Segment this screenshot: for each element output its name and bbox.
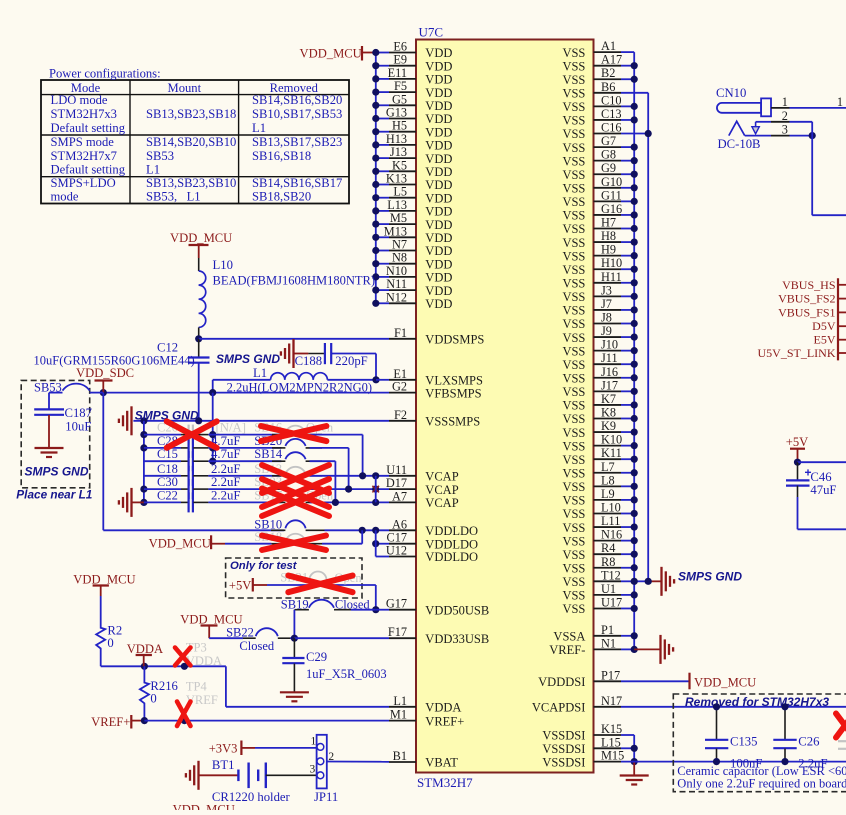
ground (C29) <box>280 692 309 701</box>
pin D17 VCAP <box>386 476 459 497</box>
svg-text:VSS: VSS <box>562 195 585 209</box>
svg-text:2: 2 <box>782 109 788 123</box>
pin J17 VSS <box>562 378 621 399</box>
power port VDD_MCU (SB22 row) <box>180 613 242 639</box>
svg-text:R8: R8 <box>601 555 615 569</box>
svg-text:1uF_X5R_0603: 1uF_X5R_0603 <box>306 667 387 681</box>
pin E9 VDD <box>389 53 452 74</box>
svg-text:N16: N16 <box>601 528 622 542</box>
svg-text:VSS: VSS <box>562 412 585 426</box>
svg-text:BEAD(FBMJ1608HM180NTR): BEAD(FBMJ1608HM180NTR) <box>213 274 376 288</box>
svg-text:VSS: VSS <box>562 453 585 467</box>
svg-text:VSS: VSS <box>562 87 585 101</box>
svg-text:VDD: VDD <box>425 125 452 139</box>
svg-text:J9: J9 <box>601 324 612 338</box>
svg-text:L7: L7 <box>601 460 615 474</box>
power port +3V3 <box>209 741 255 756</box>
pin F2 VSSSMPS <box>389 408 480 429</box>
svg-text:VSS: VSS <box>562 249 585 263</box>
svg-text:L10: L10 <box>213 258 233 272</box>
svg-text:L5: L5 <box>393 185 407 199</box>
svg-text:C46: C46 <box>810 470 831 484</box>
svg-text:VSSDSI: VSSDSI <box>542 742 585 756</box>
note Place near L1 <box>16 488 92 502</box>
svg-text:N17: N17 <box>601 694 622 708</box>
svg-text:VDD: VDD <box>425 59 452 73</box>
svg-text:H5: H5 <box>392 119 407 133</box>
capacitor C30 2.2uF <box>144 475 282 499</box>
net label VDD_MCU (bottom, cut) <box>173 803 235 815</box>
svg-text:U11: U11 <box>386 463 407 477</box>
svg-text:L1: L1 <box>253 366 267 380</box>
svg-text:SMPS+LDO: SMPS+LDO <box>51 176 116 190</box>
svg-text:P17: P17 <box>601 668 620 682</box>
svg-text:VDD: VDD <box>425 231 452 245</box>
pin U1 VSS <box>562 582 621 603</box>
power port VDDA <box>127 642 163 666</box>
svg-text:VSS: VSS <box>562 521 585 535</box>
svg-text:VCAP: VCAP <box>425 470 458 484</box>
svg-text:VSS: VSS <box>562 114 585 128</box>
pin J8 VSS <box>562 311 621 332</box>
red X over SB21 <box>288 576 352 593</box>
note Only for test <box>230 560 298 572</box>
pin U17 VSS <box>562 595 622 616</box>
svg-text:D5V: D5V <box>812 319 836 333</box>
svg-text:VDD: VDD <box>425 205 452 219</box>
svg-text:N8: N8 <box>392 251 407 265</box>
svg-text:C12: C12 <box>157 341 178 355</box>
svg-text:220pF: 220pF <box>335 354 367 368</box>
svg-text:1: 1 <box>782 95 788 109</box>
table row SMPS+LDO mode <box>51 176 343 204</box>
capacitor C15 4.7uF <box>144 447 282 471</box>
svg-text:H11: H11 <box>601 270 622 284</box>
svg-text:L1: L1 <box>393 694 407 708</box>
pin K10 VSS <box>562 433 622 454</box>
pin G16 VSS <box>562 202 622 223</box>
svg-text:VSS: VSS <box>562 534 585 548</box>
wire VREF+ to M1 <box>141 717 389 724</box>
ground SMPS GND (cap bank bottom) <box>119 488 144 517</box>
svg-text:SB18,SB20: SB18,SB20 <box>252 190 311 204</box>
svg-text:CN10: CN10 <box>716 86 746 100</box>
label L10 <box>213 258 376 288</box>
svg-text:U7C: U7C <box>419 25 444 40</box>
svg-text:K5: K5 <box>392 158 407 172</box>
solder bridge SB13 <box>254 462 322 476</box>
svg-text:SMPS GND: SMPS GND <box>25 465 89 479</box>
svg-text:VDD: VDD <box>425 46 452 60</box>
svg-text:VREF+: VREF+ <box>91 715 130 729</box>
pin M13 VDD <box>384 224 453 245</box>
ground SMPS GND symbol (C188) <box>281 339 325 368</box>
svg-text:VSS: VSS <box>562 168 585 182</box>
table header row <box>71 81 319 95</box>
power port +5V (C46) <box>786 435 809 462</box>
svg-text:J10: J10 <box>601 338 618 352</box>
power port VDD_MCU (R2) <box>73 573 135 597</box>
capacitor C29 1uF <box>282 638 386 692</box>
label SMPS GND (T12) <box>678 570 742 584</box>
svg-text:VDD: VDD <box>425 244 452 258</box>
svg-text:JP11: JP11 <box>314 790 338 804</box>
svg-text:SB14,SB16,SB20: SB14,SB16,SB20 <box>252 93 342 107</box>
pin C17 VDDLDO <box>387 531 479 552</box>
ground (BT1) <box>186 761 199 790</box>
svg-text:Power configurations:: Power configurations: <box>49 67 161 81</box>
pin M5 VDD <box>389 211 452 232</box>
svg-text:VSS: VSS <box>562 59 585 73</box>
svg-text:T12: T12 <box>601 568 621 582</box>
solder bridge SB20 <box>254 434 322 448</box>
table title <box>49 67 161 81</box>
svg-text:VDD_MCU: VDD_MCU <box>300 47 362 61</box>
wire VDDA node <box>101 663 389 707</box>
svg-text:G10: G10 <box>601 175 622 189</box>
svg-text:VSS: VSS <box>562 358 585 372</box>
wire E1 VLXSMPS row <box>372 376 389 383</box>
svg-text:SB13,SB23,SB18: SB13,SB23,SB18 <box>146 107 236 121</box>
svg-text:E11: E11 <box>388 66 407 80</box>
svg-text:J16: J16 <box>601 365 618 379</box>
pin E6 VDD <box>389 40 452 61</box>
svg-text:STM32H7x7: STM32H7x7 <box>51 149 117 163</box>
svg-text:VSS: VSS <box>562 100 585 114</box>
pin T12 VSS <box>562 568 621 589</box>
svg-text:C29: C29 <box>306 650 327 664</box>
svg-text:STM32H7x3: STM32H7x3 <box>51 107 117 121</box>
svg-text:VSS: VSS <box>562 548 585 562</box>
svg-text:N7: N7 <box>392 238 407 252</box>
capacitor C26 2.2uF <box>773 703 827 770</box>
svg-text:VSS: VSS <box>562 182 585 196</box>
junction dots VDD bus <box>372 49 379 307</box>
svg-text:VSS: VSS <box>562 439 585 453</box>
dashed box Removed for STM32H7x3 <box>673 694 846 792</box>
svg-text:1: 1 <box>837 95 843 109</box>
svg-text:SB14,SB20,SB10: SB14,SB20,SB10 <box>146 135 236 149</box>
pin K8 VSS <box>562 405 621 426</box>
svg-text:G9: G9 <box>601 161 616 175</box>
svg-text:F5: F5 <box>394 79 407 93</box>
wire VSS bus 1 <box>621 52 648 649</box>
svg-text:VSS: VSS <box>562 236 585 250</box>
connector CN10 DC-10B <box>716 86 771 151</box>
svg-text:VBUS_FS1: VBUS_FS1 <box>778 305 835 319</box>
power port VDD_MCU (top, to VDD pins) <box>300 46 376 61</box>
svg-text:SB10,SB17,SB53: SB10,SB17,SB53 <box>252 107 342 121</box>
wire cap bank left bus <box>140 421 147 506</box>
svg-text:Only one 2.2uF required on boa: Only one 2.2uF required on board <box>677 777 846 791</box>
capacitor (gray, removed) at right edge with red X <box>836 714 846 749</box>
svg-text:VDD: VDD <box>425 284 452 298</box>
pin N7 VDD <box>389 238 452 259</box>
svg-text:VDD50USB: VDD50USB <box>425 603 489 617</box>
note Removed for STM32H7x3 <box>685 695 829 709</box>
svg-text:2.2uF: 2.2uF <box>211 475 241 489</box>
svg-text:C188: C188 <box>295 354 323 368</box>
svg-text:E6: E6 <box>393 40 407 54</box>
label SMPS GND (box) <box>25 465 89 479</box>
STM32H7 part label <box>417 775 473 790</box>
red X over SB23 <box>262 479 329 507</box>
solder bridge SB23 <box>254 475 322 489</box>
wire G2 VFBSMPS row <box>100 389 389 396</box>
wire N17 VCAPDSI row to right edge <box>621 706 846 708</box>
capacitor C187 10uF <box>34 406 92 448</box>
pin G7 VSS <box>562 134 621 155</box>
svg-text:VSS: VSS <box>562 127 585 141</box>
pin G2 VFBSMPS <box>389 380 482 401</box>
svg-text:VDD: VDD <box>425 178 452 192</box>
svg-text:VDD_MCU: VDD_MCU <box>170 231 232 245</box>
pin N1 VREF- <box>549 636 621 657</box>
test point TP3 (removed) <box>186 641 222 668</box>
pin F5 VDD <box>389 79 452 100</box>
svg-text:VSSA: VSSA <box>553 630 585 644</box>
svg-text:VSS: VSS <box>562 575 585 589</box>
svg-text:J7: J7 <box>601 297 612 311</box>
svg-text:VSS: VSS <box>562 507 585 521</box>
svg-text:N1: N1 <box>601 636 616 650</box>
svg-text:SB53, L1: SB53, L1 <box>146 190 201 204</box>
svg-text:C18: C18 <box>157 462 178 476</box>
wire U11 VCAP row <box>310 472 389 479</box>
svg-text:VSS: VSS <box>562 371 585 385</box>
svg-text:VSS: VSS <box>562 317 585 331</box>
pin U12 VDDLDO <box>386 544 478 565</box>
svg-text:Default setting: Default setting <box>51 121 126 135</box>
pin M1 VREF+ <box>389 708 464 729</box>
svg-text:C16: C16 <box>601 121 622 135</box>
svg-text:VDD_SDC: VDD_SDC <box>76 366 134 380</box>
svg-text:STM32H7: STM32H7 <box>417 775 473 790</box>
pin P17 VDDDSI <box>538 668 621 689</box>
pin H7 VSS <box>562 216 621 237</box>
svg-text:C22: C22 <box>157 488 178 502</box>
svg-text:C30: C30 <box>157 475 178 489</box>
svg-text:SB14: SB14 <box>254 447 283 461</box>
svg-text:VDD: VDD <box>425 271 452 285</box>
wire VSSDSI K15/L15/M15 <box>621 735 638 765</box>
svg-text:VSSSMPS: VSSSMPS <box>425 415 480 429</box>
svg-text:LDO mode: LDO mode <box>51 93 108 107</box>
solder bridge SB22 <box>209 626 389 654</box>
ground SMPS GND (C187) <box>35 448 64 457</box>
svg-text:Closed: Closed <box>335 598 370 612</box>
svg-text:3: 3 <box>782 123 788 137</box>
pin H5 VDD <box>389 119 452 140</box>
svg-text:K11: K11 <box>601 446 622 460</box>
pin H13 VDD <box>386 132 453 153</box>
svg-text:VSS: VSS <box>562 222 585 236</box>
svg-text:Place near L1: Place near L1 <box>16 488 92 502</box>
svg-text:VSS: VSS <box>562 209 585 223</box>
pin G11 VSS <box>562 188 621 209</box>
label C12 <box>34 341 195 368</box>
svg-text:VSS: VSS <box>562 263 585 277</box>
svg-text:SMPS GND: SMPS GND <box>678 570 742 584</box>
svg-text:F17: F17 <box>388 625 407 639</box>
svg-text:+5V: +5V <box>786 435 809 449</box>
svg-text:B6: B6 <box>601 80 615 94</box>
U7C designator label <box>419 25 444 40</box>
pin J13 VDD <box>389 145 452 166</box>
svg-text:D17: D17 <box>386 476 407 490</box>
svg-text:L9: L9 <box>601 487 615 501</box>
pin A1 VSS <box>562 39 621 60</box>
pin K9 VSS <box>562 419 621 440</box>
pin L7 VSS <box>562 460 621 481</box>
pin J11 VSS <box>562 351 621 372</box>
svg-text:K10: K10 <box>601 433 622 447</box>
red X over SB17 <box>262 489 329 517</box>
svg-text:VSS: VSS <box>562 46 585 60</box>
CN10 pin 1 wire <box>771 95 846 109</box>
dashed box place near L1 <box>21 380 90 487</box>
svg-text:U5V_ST_LINK: U5V_ST_LINK <box>758 346 836 360</box>
CN10 pin 2 wire <box>756 109 813 123</box>
svg-text:SB13,SB23,SB10: SB13,SB23,SB10 <box>146 176 236 190</box>
svg-text:C187: C187 <box>65 406 93 420</box>
red X over TP3 <box>175 648 191 666</box>
wire A7 VCAP row <box>310 499 389 506</box>
solder bridge SB21 (removed) <box>267 571 376 586</box>
red X over SB18 <box>262 536 326 551</box>
svg-text:10uF: 10uF <box>65 420 91 434</box>
svg-text:SMPS GND: SMPS GND <box>216 352 280 366</box>
pin R8 VSS <box>562 555 621 576</box>
pin A17 VSS <box>562 53 622 74</box>
svg-text:K7: K7 <box>601 392 616 406</box>
svg-text:H7: H7 <box>601 216 616 230</box>
svg-text:L8: L8 <box>601 473 615 487</box>
pin U11 VCAP <box>386 463 458 484</box>
svg-text:A1: A1 <box>601 39 616 53</box>
capacitor C188 220pF <box>295 343 376 380</box>
inductor L10 BEAD <box>199 258 206 339</box>
wire VSSSMPS F2 row <box>133 417 389 424</box>
wire VDD_SDC to VDDLDO <box>103 393 284 531</box>
solder bridge SB18 (removed) <box>225 530 362 544</box>
pin J7 VSS <box>562 297 621 318</box>
pin H8 VSS <box>562 229 621 250</box>
pin B2 VSS <box>562 66 621 87</box>
svg-text:VDDLDO: VDDLDO <box>425 550 478 564</box>
svg-text:Removed for STM32H7x3: Removed for STM32H7x3 <box>685 695 829 709</box>
svg-text:J8: J8 <box>601 311 612 325</box>
pin J9 VSS <box>562 324 621 345</box>
svg-text:0: 0 <box>150 692 156 706</box>
svg-text:0: 0 <box>107 636 113 650</box>
svg-text:VSS: VSS <box>562 602 585 616</box>
svg-text:G13: G13 <box>386 106 407 120</box>
svg-text:[N/A]: [N/A] <box>216 421 247 435</box>
svg-text:F2: F2 <box>394 408 407 422</box>
svg-text:VDD_MCU: VDD_MCU <box>694 676 756 690</box>
capacitor C28 4.7uF <box>144 434 282 458</box>
ground at VSSDSI <box>620 762 649 785</box>
svg-text:H9: H9 <box>601 243 616 257</box>
svg-text:L15: L15 <box>601 735 621 749</box>
svg-text:N10: N10 <box>386 264 407 278</box>
svg-text:VSS: VSS <box>562 331 585 345</box>
pin H10 VSS <box>562 256 622 277</box>
IC U7C body <box>416 40 594 773</box>
svg-text:G11: G11 <box>601 188 622 202</box>
pin G17 VDD50USB <box>386 597 489 618</box>
svg-text:VDD: VDD <box>425 99 452 113</box>
svg-text:VSS: VSS <box>562 276 585 290</box>
wire VSS bus 2 (B6/C16 to SMPS GND) <box>634 93 661 582</box>
svg-text:VSS: VSS <box>562 494 585 508</box>
solder bridge SB53 <box>34 380 103 409</box>
svg-text:J11: J11 <box>601 351 618 365</box>
pin H11 VSS <box>562 270 621 291</box>
svg-text:VDD33USB: VDD33USB <box>425 632 489 646</box>
pin M15 VSSDSI <box>542 749 624 770</box>
svg-text:M5: M5 <box>390 211 407 225</box>
CN10 switch contact symbol <box>729 121 760 135</box>
pin L15 VSSDSI <box>542 735 621 756</box>
svg-text:mode: mode <box>51 190 79 204</box>
red X over SB16 <box>261 426 326 441</box>
svg-text:C135: C135 <box>730 735 758 749</box>
wire VDD bus vertical <box>376 53 389 304</box>
svg-text:VDD_MCU: VDD_MCU <box>173 803 235 811</box>
label SMPS GND (C188) <box>216 352 280 366</box>
svg-text:C10: C10 <box>601 93 622 107</box>
pin R4 VSS <box>562 541 621 562</box>
svg-text:VSS: VSS <box>562 304 585 318</box>
pin C13 VSS <box>562 107 621 128</box>
wire C17 VDDLDO row <box>372 540 389 547</box>
svg-text:VSS: VSS <box>562 426 585 440</box>
svg-text:TP4: TP4 <box>186 680 208 694</box>
svg-text:VSS: VSS <box>562 399 585 413</box>
table row SMPS mode <box>51 135 343 176</box>
pin J10 VSS <box>562 338 621 359</box>
svg-text:L11: L11 <box>601 514 620 528</box>
svg-text:VDD: VDD <box>425 257 452 271</box>
capacitor C22 2.2uF <box>144 488 282 512</box>
svg-text:BT1: BT1 <box>212 758 235 772</box>
svg-text:E5V: E5V <box>814 333 836 347</box>
wire VCAP tie vertical <box>375 476 377 503</box>
svg-text:VBAT: VBAT <box>425 756 458 770</box>
pin G9 VSS <box>562 161 621 182</box>
svg-text:VREF-: VREF- <box>549 643 585 657</box>
svg-text:VSSDSI: VSSDSI <box>542 755 585 769</box>
svg-text:VSS: VSS <box>562 561 585 575</box>
svg-text:VDD: VDD <box>425 112 452 126</box>
svg-text:VBUS_FS2: VBUS_FS2 <box>778 292 835 306</box>
svg-text:VDD: VDD <box>425 73 452 87</box>
svg-text:VDD: VDD <box>425 191 452 205</box>
svg-text:G8: G8 <box>601 148 616 162</box>
capacitor C26 [N/A] <box>144 421 282 445</box>
pin A6 VDDLDO <box>389 517 478 538</box>
svg-text:N11: N11 <box>386 277 407 291</box>
svg-text:VDDDSI: VDDDSI <box>538 675 585 689</box>
capacitor C135 100nF <box>705 703 762 770</box>
pin L11 VSS <box>562 514 621 535</box>
svg-text:SB53: SB53 <box>146 149 174 163</box>
svg-text:U1: U1 <box>601 582 616 596</box>
svg-text:2.2uF: 2.2uF <box>211 488 241 502</box>
svg-text:Closed: Closed <box>239 639 274 653</box>
